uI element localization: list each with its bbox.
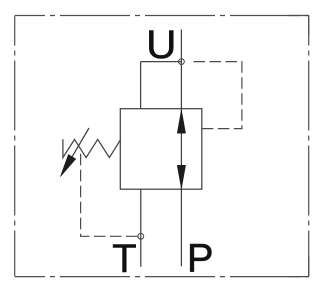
border corner patches [289,16,309,277]
wire left branch down to valve body [140,62,142,109]
wire horizontal connector at node under U [141,61,182,63]
node circle on T line [138,233,144,239]
label P [190,244,211,272]
pilot line (dashed) from node U to right side of valve [191,62,242,129]
node circle under U [179,59,185,65]
arrowhead up inside valve [177,110,185,133]
arrowhead down inside valve [177,165,185,189]
wire U vertical line (port U through valve to port P) [180,30,182,267]
adjustment arrow shaft (diagonal) [72,128,89,157]
spring (adjustable) zigzag on left of valve [63,139,121,157]
valve body box [120,109,202,190]
drain line (dashed) from spring area down to node T [81,151,138,237]
adjustment arrowhead [60,155,75,177]
label T [113,244,136,272]
wire T line from valve bottom to port T [140,189,142,267]
label U [149,31,173,59]
